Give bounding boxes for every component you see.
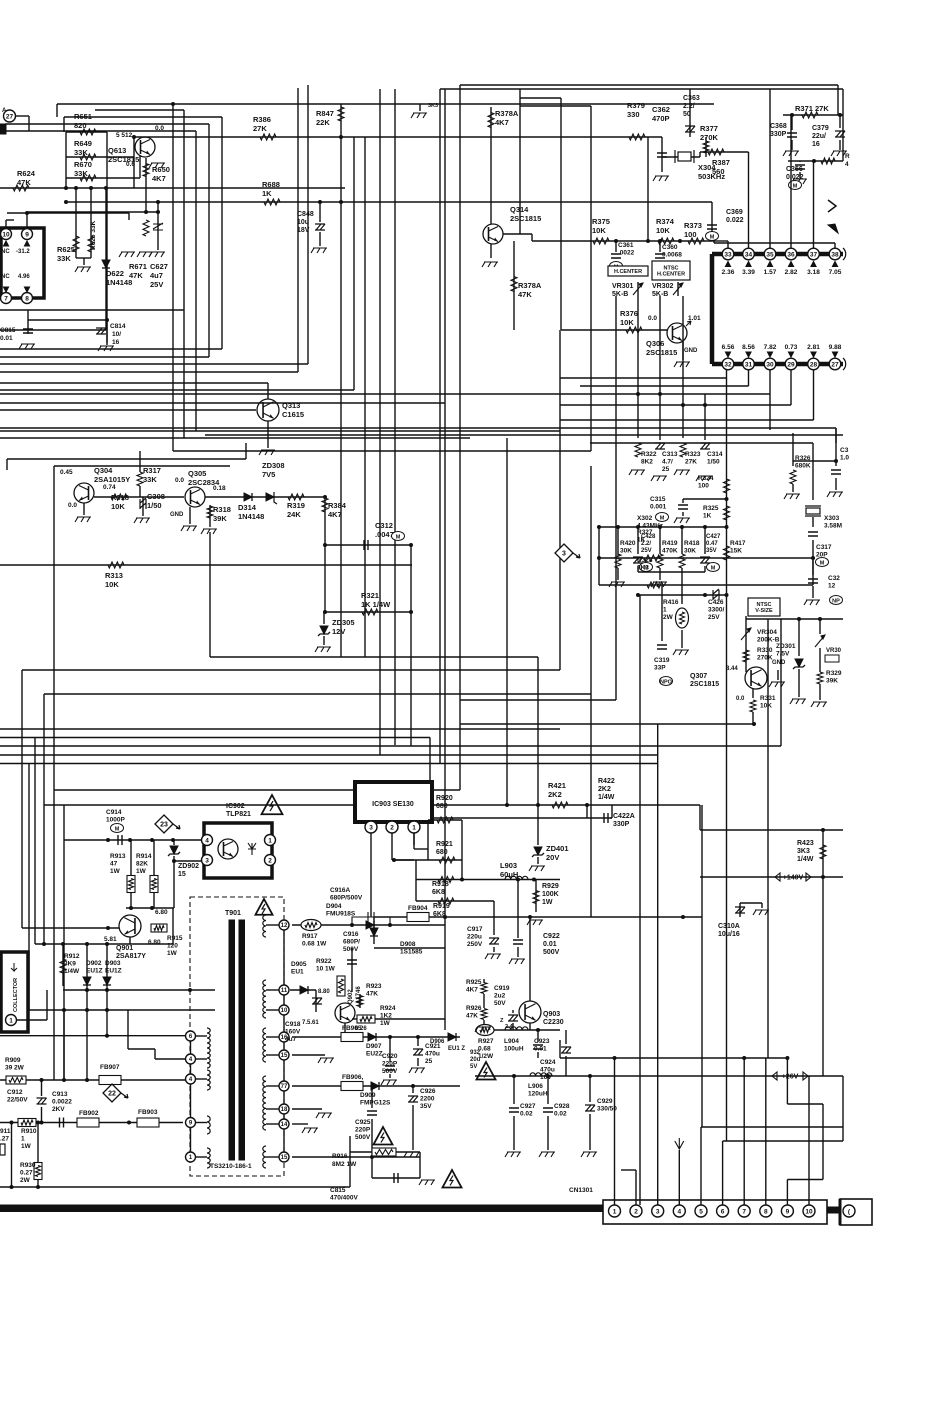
svg-text:18V: 18V [297, 227, 310, 234]
svg-text:0.0: 0.0 [648, 315, 657, 322]
svg-text:VR304: VR304 [757, 629, 777, 636]
svg-text:22u/: 22u/ [812, 133, 826, 140]
svg-text:FB907: FB907 [100, 1064, 120, 1071]
svg-text:R330: R330 [757, 647, 773, 654]
svg-text:C848: C848 [297, 211, 314, 218]
svg-text:8.44: 8.44 [726, 666, 738, 672]
svg-text:18: 18 [281, 1107, 288, 1113]
svg-text:D904: D904 [326, 903, 342, 910]
svg-text:2W: 2W [663, 614, 674, 621]
svg-text:28: 28 [810, 361, 818, 368]
svg-text:V-SIZE: V-SIZE [755, 608, 773, 614]
svg-text:R324: R324 [698, 475, 714, 482]
svg-text:8: 8 [764, 1208, 768, 1215]
svg-text:2SC1815: 2SC1815 [690, 681, 719, 688]
svg-text:1: 1 [663, 607, 667, 614]
svg-text:R927: R927 [478, 1038, 494, 1045]
svg-text:2.4: 2.4 [505, 1024, 514, 1030]
svg-text:4: 4 [205, 837, 209, 844]
svg-text:14: 14 [281, 1122, 288, 1128]
svg-text:R386: R386 [253, 115, 271, 124]
svg-text:C32: C32 [828, 575, 840, 582]
svg-text:4: 4 [845, 161, 849, 168]
svg-text:D908: D908 [400, 941, 416, 948]
svg-text:C427: C427 [706, 534, 721, 540]
svg-text:470u: 470u [425, 1051, 440, 1058]
svg-text:0.01: 0.01 [0, 335, 13, 342]
svg-text:R378A: R378A [518, 281, 542, 290]
svg-text:.0022: .0022 [618, 250, 635, 257]
svg-text:0.73: 0.73 [785, 344, 798, 351]
svg-text:R416: R416 [663, 599, 679, 606]
svg-text:EU1 Z: EU1 Z [448, 1046, 465, 1052]
svg-text:C925: C925 [355, 1119, 371, 1126]
svg-text:0.01: 0.01 [543, 941, 557, 948]
svg-text:10: 10 [2, 231, 10, 238]
svg-text:1/4W: 1/4W [64, 968, 80, 975]
svg-text:EU2Z: EU2Z [366, 1051, 383, 1058]
svg-text:0.0: 0.0 [155, 125, 164, 132]
svg-text:R650: R650 [152, 165, 170, 174]
svg-text:0.0022: 0.0022 [52, 1099, 72, 1106]
svg-text:Q613: Q613 [108, 146, 126, 155]
svg-text:4K7: 4K7 [466, 987, 478, 994]
svg-text:R688: R688 [262, 180, 280, 189]
svg-text:M: M [710, 234, 715, 240]
svg-text:R421: R421 [548, 781, 566, 790]
svg-text:EU1Z: EU1Z [86, 968, 103, 975]
svg-text:22: 22 [108, 1091, 116, 1098]
svg-text:C315: C315 [650, 496, 666, 503]
svg-text:7.5.61: 7.5.61 [302, 1020, 319, 1026]
svg-text:T901: T901 [225, 910, 241, 917]
svg-text:1/50: 1/50 [707, 459, 720, 466]
svg-text:500V: 500V [355, 1134, 371, 1141]
svg-text:1N4148: 1N4148 [106, 278, 132, 287]
svg-text:10/: 10/ [112, 331, 121, 338]
svg-text:34: 34 [745, 251, 753, 258]
svg-text:D906: D906 [430, 1039, 445, 1045]
svg-text:C317: C317 [816, 544, 832, 551]
svg-text:35V: 35V [706, 548, 717, 554]
svg-text:82K: 82K [136, 861, 148, 868]
svg-text:250V: 250V [467, 941, 483, 948]
svg-text:0.18: 0.18 [213, 485, 226, 492]
svg-text:EU1Z: EU1Z [105, 968, 122, 975]
svg-text:C363: C363 [683, 95, 700, 102]
svg-text:330P: 330P [770, 131, 787, 138]
svg-text:2.82: 2.82 [785, 269, 798, 276]
svg-text:C356: C356 [786, 166, 803, 173]
svg-text:R387: R387 [712, 158, 730, 167]
svg-text:35V: 35V [420, 1103, 432, 1110]
svg-text:47K: 47K [518, 290, 532, 299]
svg-text:+26V: +26V [782, 1074, 799, 1081]
svg-text:FMU918S: FMU918S [326, 911, 356, 918]
svg-text:C924: C924 [540, 1059, 556, 1066]
svg-text:H.CENTER: H.CENTER [657, 272, 685, 278]
svg-text:5.81: 5.81 [104, 936, 117, 943]
svg-text:C912: C912 [7, 1089, 23, 1096]
svg-text:2K2: 2K2 [548, 790, 562, 799]
svg-text:NPO: NPO [660, 679, 673, 685]
svg-text:R417: R417 [730, 540, 746, 547]
svg-text:1/4W: 1/4W [598, 794, 615, 801]
svg-text:0.68 1W: 0.68 1W [302, 941, 327, 948]
svg-text:0.0: 0.0 [68, 502, 77, 509]
svg-text:X302: X302 [637, 515, 653, 522]
svg-text:10K: 10K [656, 226, 670, 235]
svg-text:C312: C312 [375, 521, 393, 530]
svg-text:R325: R325 [703, 505, 719, 512]
svg-text:4: 4 [677, 1208, 681, 1215]
svg-text:0.27: 0.27 [20, 1170, 33, 1177]
svg-text:0.0: 0.0 [175, 477, 184, 484]
svg-text:33: 33 [724, 251, 732, 258]
svg-text:D622: D622 [106, 269, 124, 278]
svg-text:C926: C926 [420, 1088, 436, 1095]
svg-text:1S1585: 1S1585 [400, 949, 423, 956]
svg-text:2200: 2200 [420, 1096, 435, 1103]
svg-text:15: 15 [281, 1155, 288, 1161]
svg-text:20u: 20u [470, 1057, 481, 1063]
svg-text:27K: 27K [685, 459, 697, 466]
svg-text:C310A: C310A [718, 923, 740, 930]
svg-text:R418: R418 [684, 540, 700, 547]
svg-text:10u: 10u [297, 219, 309, 226]
svg-text:16: 16 [112, 339, 120, 346]
svg-text:39K: 39K [826, 678, 838, 685]
svg-text:1000P: 1000P [106, 817, 125, 824]
svg-text:C3: C3 [840, 447, 849, 454]
svg-text:38: 38 [831, 251, 839, 258]
svg-text:2: 2 [268, 857, 272, 864]
svg-text:1/2W: 1/2W [478, 1053, 494, 1060]
svg-text:680: 680 [436, 803, 448, 810]
svg-text:R371 27K: R371 27K [795, 104, 829, 113]
svg-text:C361: C361 [618, 242, 634, 249]
svg-text:R670: R670 [74, 160, 92, 169]
svg-text:R375: R375 [592, 217, 610, 226]
svg-text:100: 100 [698, 483, 709, 490]
svg-text:2KV: 2KV [52, 1106, 65, 1113]
svg-text:60uH: 60uH [500, 870, 518, 879]
svg-text:R912: R912 [64, 953, 80, 960]
svg-text:R914: R914 [136, 853, 152, 860]
svg-text:ZD902: ZD902 [178, 863, 199, 870]
svg-text:C627: C627 [150, 262, 168, 271]
svg-text:470K: 470K [662, 548, 678, 555]
svg-text:C422A: C422A [613, 813, 635, 820]
svg-text:330/50: 330/50 [597, 1106, 617, 1113]
svg-text:R909: R909 [5, 1057, 21, 1064]
svg-text:2.2/: 2.2/ [683, 103, 695, 110]
svg-text:1W: 1W [136, 868, 147, 875]
svg-text:5V: 5V [470, 1064, 477, 1070]
svg-text:R328: R328 [637, 557, 653, 564]
svg-text:COLLECTOR: COLLECTOR [13, 978, 19, 1012]
svg-text:Q304: Q304 [94, 466, 113, 475]
svg-text:12: 12 [281, 923, 288, 929]
svg-text:GND: GND [772, 660, 786, 666]
svg-text:CN1301: CN1301 [569, 1187, 593, 1194]
svg-text:M: M [396, 534, 401, 540]
svg-text:FB904: FB904 [408, 905, 428, 912]
svg-text:1.0: 1.0 [840, 455, 849, 462]
svg-text:M: M [115, 826, 120, 832]
svg-text:C313: C313 [662, 451, 678, 458]
svg-text:R913: R913 [110, 853, 126, 860]
svg-text:C1615: C1615 [282, 410, 304, 419]
svg-text:3.18: 3.18 [807, 269, 820, 276]
svg-text:R377: R377 [700, 124, 718, 133]
svg-text:27K: 27K [253, 124, 267, 133]
svg-text:33K: 33K [57, 254, 71, 263]
svg-text:39 2W: 39 2W [5, 1065, 25, 1072]
svg-text:30K: 30K [684, 548, 696, 555]
svg-text:220P: 220P [355, 1127, 371, 1134]
svg-text:220P: 220P [382, 1061, 398, 1068]
svg-text:47K: 47K [366, 991, 378, 998]
svg-text:C368: C368 [770, 123, 787, 130]
svg-text:R926: R926 [466, 1005, 482, 1012]
svg-text:VR301: VR301 [612, 283, 634, 290]
svg-text:R317: R317 [143, 466, 161, 475]
svg-text:0.01: 0.01 [534, 1046, 547, 1053]
svg-text:25V: 25V [641, 548, 652, 554]
svg-text:6: 6 [721, 1208, 725, 1215]
svg-text:10K: 10K [105, 580, 119, 589]
svg-text:8M2 1W: 8M2 1W [332, 1161, 357, 1168]
svg-text:4.7/: 4.7/ [662, 459, 673, 466]
svg-text:3.58M: 3.58M [824, 523, 842, 530]
svg-text:C379: C379 [812, 125, 829, 132]
svg-text:R916: R916 [332, 1153, 348, 1160]
svg-text:D903: D903 [105, 960, 121, 967]
svg-text:100: 100 [684, 230, 697, 239]
svg-text:2: 2 [390, 824, 394, 831]
svg-text:ZD301: ZD301 [776, 643, 796, 650]
svg-text:50V: 50V [494, 1000, 506, 1007]
svg-text:C914: C914 [106, 809, 122, 816]
svg-text:160V: 160V [285, 1029, 301, 1036]
svg-text:R423: R423 [797, 840, 814, 847]
svg-text:R929: R929 [542, 883, 559, 890]
svg-text:25V: 25V [150, 280, 163, 289]
svg-text:C929: C929 [597, 1098, 613, 1105]
svg-text:C319: C319 [654, 657, 670, 664]
svg-text:9: 9 [25, 231, 29, 238]
svg-text:1K: 1K [637, 537, 646, 544]
svg-text:R329: R329 [826, 670, 842, 677]
svg-text:Q314: Q314 [510, 205, 529, 214]
svg-text:2K2: 2K2 [598, 786, 611, 793]
svg-text:77: 77 [281, 1084, 288, 1090]
svg-text:IC902: IC902 [226, 803, 245, 810]
svg-text:2SC1815: 2SC1815 [646, 348, 677, 357]
svg-text:470P: 470P [652, 114, 670, 123]
svg-text:1W: 1W [21, 1143, 32, 1150]
svg-text:C426: C426 [708, 599, 724, 606]
svg-text:47: 47 [110, 861, 118, 868]
svg-text:25V: 25V [708, 614, 720, 621]
svg-text:330: 330 [627, 110, 640, 119]
svg-text:7.05: 7.05 [829, 269, 842, 276]
svg-text:270K: 270K [757, 655, 773, 662]
svg-text:5: 5 [699, 1208, 703, 1215]
svg-text:NTSC: NTSC [664, 265, 679, 271]
svg-text:12: 12 [828, 583, 836, 590]
svg-text:R924: R924 [380, 1005, 396, 1012]
svg-text:1W: 1W [167, 950, 178, 957]
svg-text:C922: C922 [543, 933, 560, 940]
svg-text:TS3210-186-1: TS3210-186-1 [210, 1163, 252, 1170]
svg-text:7: 7 [4, 295, 8, 302]
svg-text:NC: NC [1, 274, 10, 280]
svg-text:2.81: 2.81 [807, 344, 820, 351]
svg-text:30K: 30K [620, 548, 632, 555]
svg-text:R625: R625 [57, 245, 75, 254]
svg-text:C920: C920 [382, 1053, 398, 1060]
svg-text:120uH: 120uH [528, 1091, 548, 1098]
svg-text:M: M [820, 560, 825, 566]
svg-text:Q901: Q901 [116, 945, 133, 952]
svg-text:0.0: 0.0 [736, 696, 745, 702]
svg-text:ZD305: ZD305 [332, 618, 355, 627]
svg-text:3K3: 3K3 [428, 103, 438, 109]
svg-text:0.0068: 0.0068 [662, 252, 682, 259]
svg-text:R327: R327 [637, 529, 653, 536]
svg-text:C815: C815 [330, 1187, 346, 1194]
svg-text:1W: 1W [542, 899, 553, 906]
svg-text:C916A: C916A [330, 887, 351, 894]
svg-text:3K3: 3K3 [797, 848, 810, 855]
svg-text:9.88: 9.88 [829, 344, 842, 351]
svg-text:FB905: FB905 [342, 1025, 362, 1032]
svg-text:C928: C928 [554, 1103, 570, 1110]
svg-text:+140V: +140V [783, 875, 804, 882]
svg-text:10K: 10K [592, 226, 606, 235]
svg-text:R921: R921 [436, 841, 453, 848]
svg-text:0.022: 0.022 [786, 174, 804, 181]
svg-text:10K: 10K [760, 703, 772, 710]
svg-text:8.56: 8.56 [742, 344, 755, 351]
svg-text:.0047: .0047 [375, 530, 394, 539]
svg-text:470/400V: 470/400V [330, 1195, 358, 1202]
svg-text:3.39: 3.39 [742, 269, 755, 276]
svg-text:C918: C918 [285, 1021, 301, 1028]
svg-text:39K: 39K [213, 514, 227, 523]
svg-text:C927: C927 [520, 1103, 536, 1110]
svg-text:680P/500V: 680P/500V [330, 895, 363, 902]
svg-text:A: A [2, 108, 7, 114]
svg-text:R671: R671 [129, 262, 147, 271]
svg-text:47K: 47K [17, 178, 31, 187]
svg-text:Q902: Q902 [348, 989, 354, 1004]
svg-text:7.5V: 7.5V [776, 651, 790, 658]
svg-text:12V: 12V [332, 627, 345, 636]
svg-text:C362: C362 [652, 105, 670, 114]
svg-text:1W: 1W [380, 1020, 391, 1027]
svg-text:6.80: 6.80 [155, 909, 168, 916]
svg-text:820: 820 [74, 121, 87, 130]
svg-text:2SC1815: 2SC1815 [510, 214, 541, 223]
svg-text:R318: R318 [111, 493, 129, 502]
svg-text:3300/: 3300/ [708, 607, 724, 614]
svg-text:D907: D907 [366, 1043, 382, 1050]
svg-text:VR302: VR302 [652, 283, 674, 290]
svg-text:4K7: 4K7 [152, 174, 166, 183]
svg-text:M: M [793, 183, 798, 189]
svg-text:22K: 22K [316, 118, 330, 127]
svg-text:R323: R323 [685, 451, 701, 458]
svg-text:R374: R374 [656, 217, 675, 226]
svg-text:25: 25 [662, 466, 670, 473]
svg-text:R422: R422 [598, 778, 615, 785]
svg-text:R915: R915 [167, 935, 183, 942]
svg-text:932: 932 [470, 1050, 481, 1056]
svg-text:6.80: 6.80 [148, 939, 161, 946]
svg-text:C814: C814 [110, 323, 126, 330]
svg-text:D909: D909 [360, 1092, 376, 1099]
svg-text:0.02: 0.02 [520, 1111, 533, 1118]
svg-text:560: 560 [712, 167, 725, 176]
svg-text:8: 8 [25, 295, 29, 302]
svg-text:R379: R379 [627, 101, 645, 110]
svg-text:500V: 500V [382, 1068, 398, 1075]
svg-text:Q306: Q306 [646, 339, 664, 348]
svg-text:1/4W: 1/4W [797, 856, 814, 863]
svg-text:8.80: 8.80 [318, 989, 330, 995]
svg-text:R420: R420 [620, 540, 636, 547]
svg-text:1/50: 1/50 [147, 501, 162, 510]
svg-text:15: 15 [281, 1053, 288, 1059]
svg-text:7: 7 [742, 1208, 746, 1215]
svg-text:23: 23 [160, 822, 168, 829]
svg-text:VR30: VR30 [826, 648, 842, 654]
svg-text:500V: 500V [543, 949, 560, 956]
svg-text:1: 1 [613, 1208, 617, 1215]
svg-text:11: 11 [281, 988, 288, 994]
svg-text:1: 1 [9, 1017, 13, 1024]
svg-text:680P/: 680P/ [343, 939, 360, 946]
svg-text:100K: 100K [542, 891, 559, 898]
svg-text:47K: 47K [466, 1013, 478, 1020]
svg-text:7V5: 7V5 [262, 470, 275, 479]
svg-text:R384: R384 [328, 501, 347, 510]
svg-text:24K: 24K [287, 510, 301, 519]
svg-text:R373: R373 [684, 221, 702, 230]
svg-text:L906: L906 [528, 1083, 543, 1090]
svg-text:2SA1015Y: 2SA1015Y [94, 475, 130, 484]
svg-text:29: 29 [787, 361, 795, 368]
svg-text:470u: 470u [540, 1067, 555, 1074]
svg-text:3K9: 3K9 [64, 961, 76, 968]
svg-text:37: 37 [810, 251, 818, 258]
svg-text:C314: C314 [707, 451, 723, 458]
svg-text:GND: GND [170, 512, 184, 518]
svg-text:2W: 2W [20, 1177, 31, 1184]
svg-text:0.47: 0.47 [706, 541, 718, 547]
svg-text:C916: C916 [343, 931, 359, 938]
svg-text:R624: R624 [17, 169, 36, 178]
svg-text:3: 3 [562, 551, 566, 558]
svg-text:R918: R918 [432, 881, 449, 888]
svg-text:FB906,: FB906, [342, 1074, 364, 1081]
svg-text:R378A: R378A [495, 109, 519, 118]
svg-text:GND: GND [684, 348, 698, 354]
svg-text:1K 1/4W: 1K 1/4W [361, 600, 391, 609]
